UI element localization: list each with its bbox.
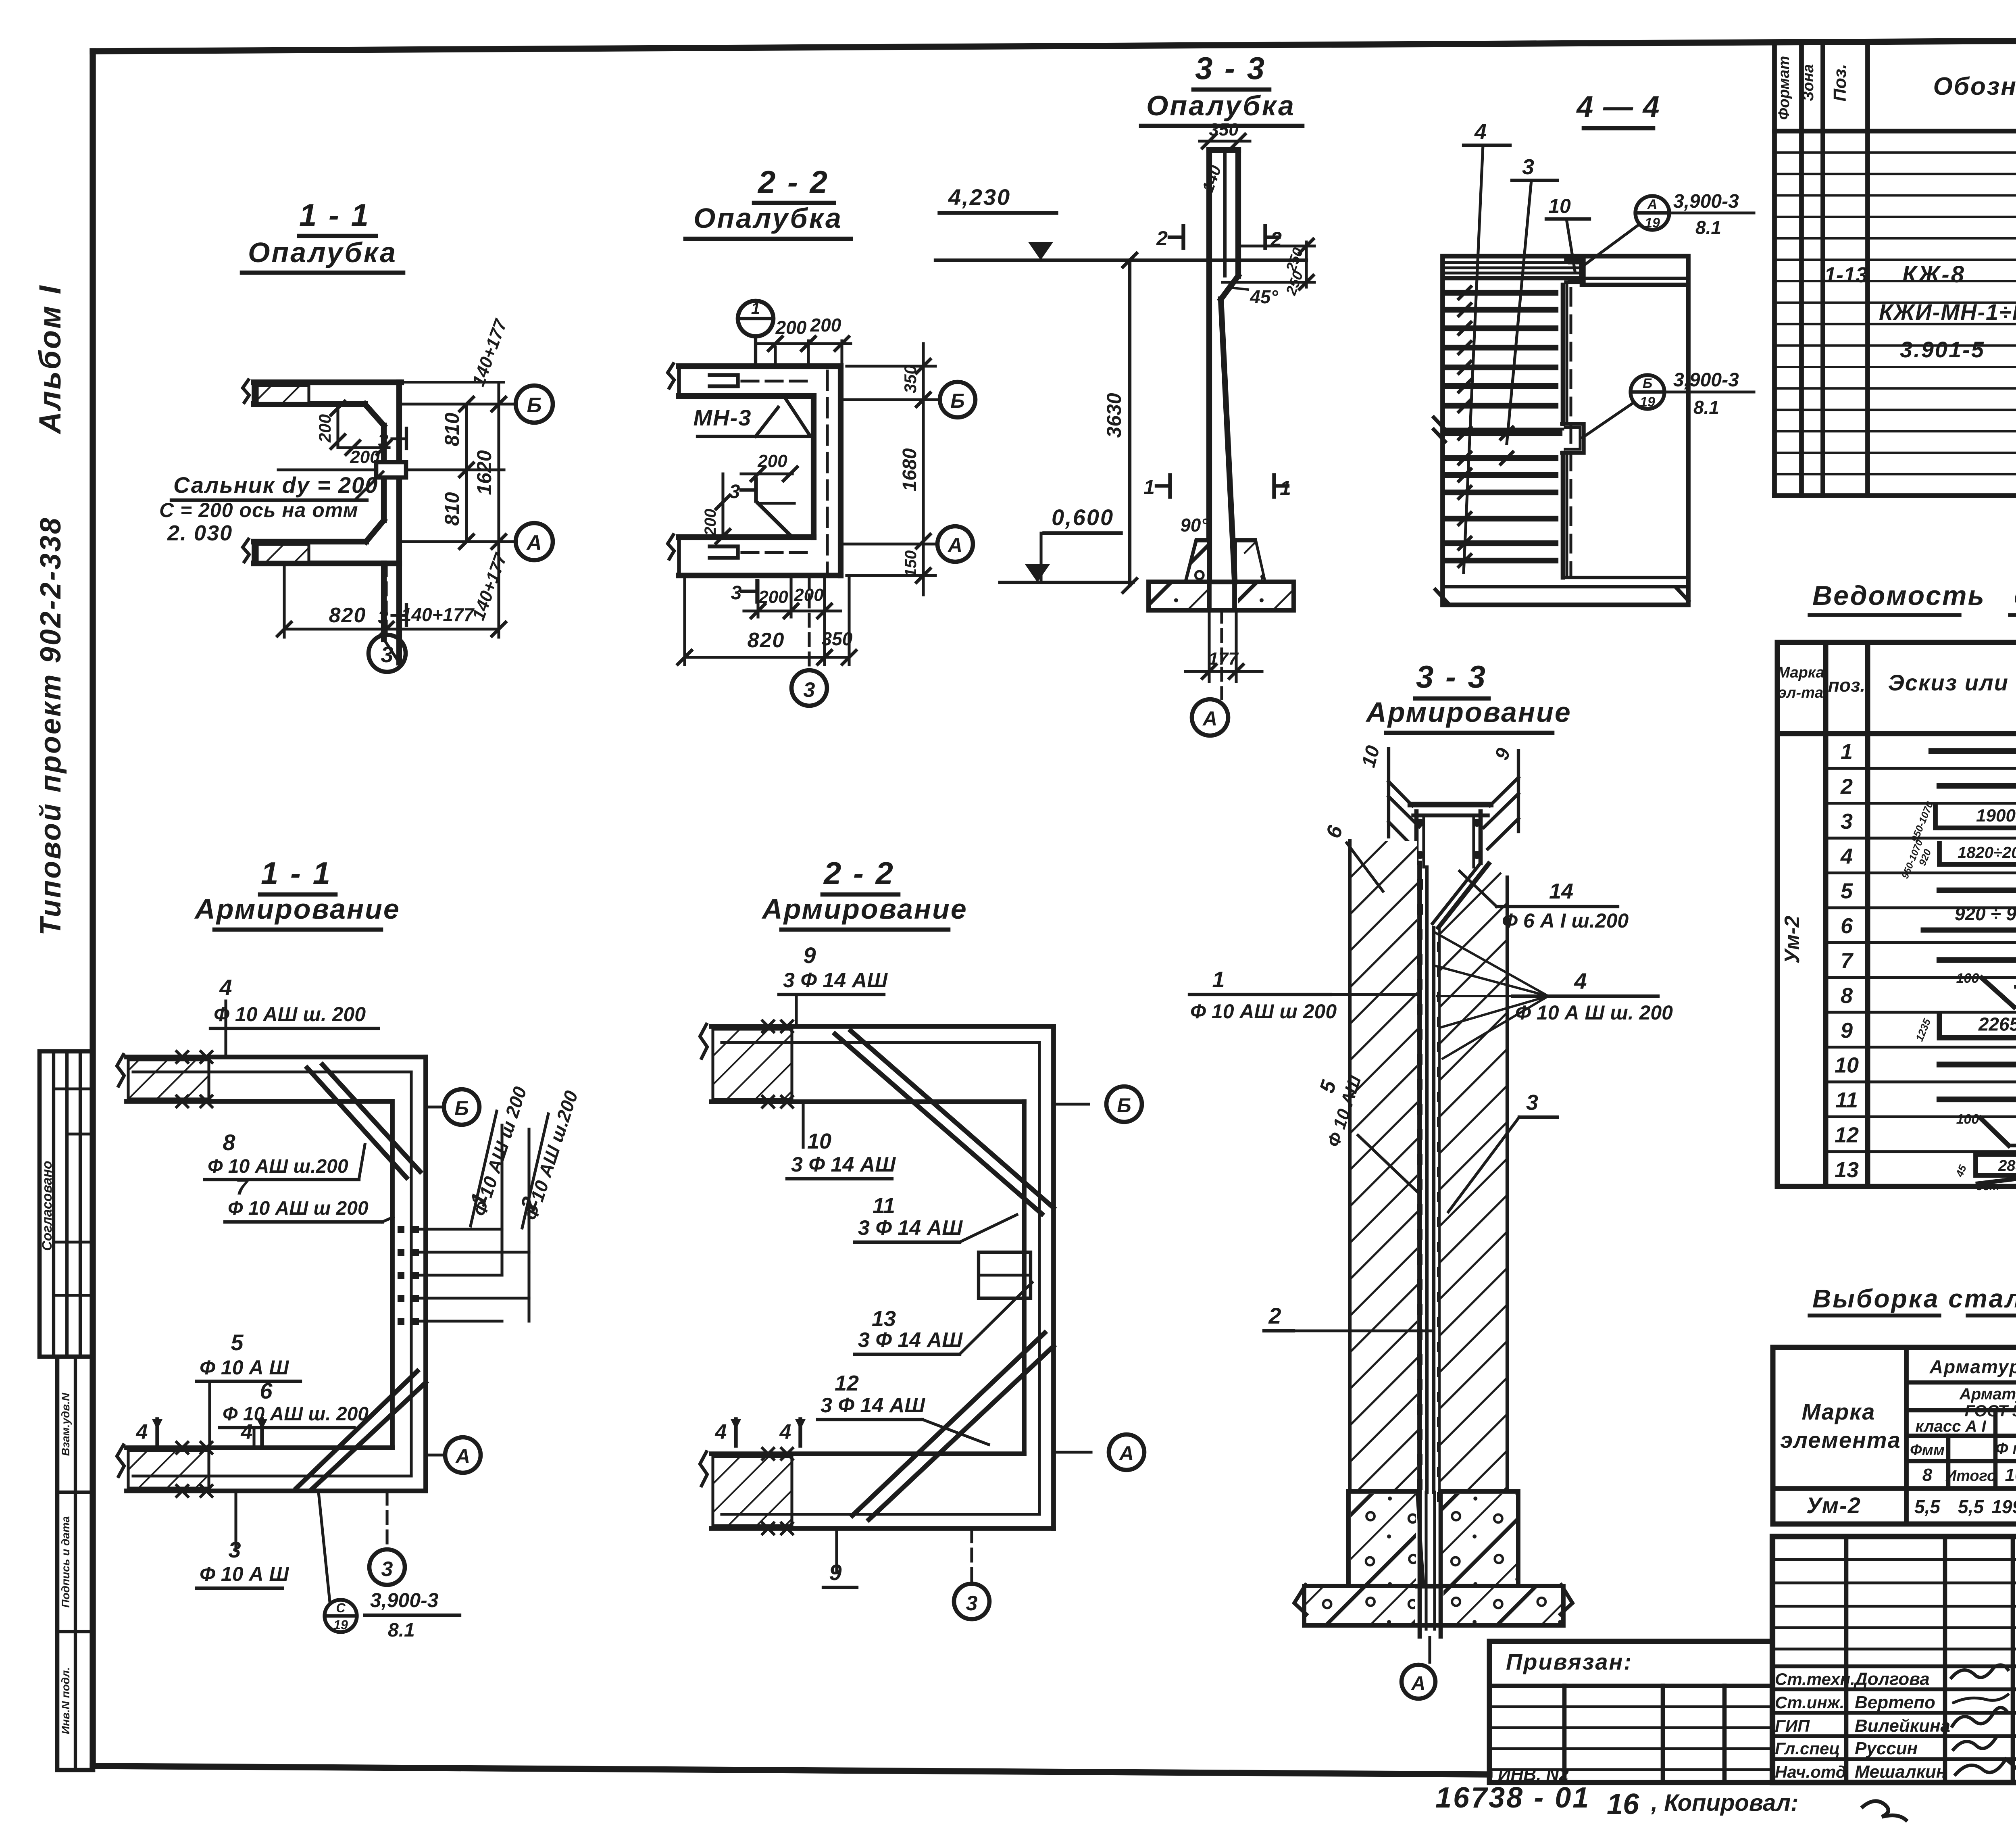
svg-text:класс А I: класс А I — [1915, 1418, 1986, 1435]
svg-text:1-13: 1-13 — [1824, 263, 1868, 287]
svg-text:Формат: Формат — [1776, 56, 1793, 120]
node A 3-3 — [1220, 610, 1223, 698]
svg-text:стержней на один элемент: стержней на один элемент — [2014, 580, 2016, 611]
svg-text:Привязан:: Привязан: — [1506, 1649, 1633, 1674]
svg-text:3630: 3630 — [1103, 393, 1125, 438]
svg-text:200: 200 — [315, 414, 334, 443]
svg-text:Гл.спец: Гл.спец — [1775, 1739, 1840, 1758]
svg-text:200: 200 — [758, 587, 788, 607]
svg-text:Обозначение: Обозначение — [1933, 73, 2016, 100]
svg-text:Фмм: Фмм — [1910, 1442, 1945, 1459]
svg-text:Руссин: Руссин — [1855, 1739, 1918, 1758]
view 4-4 drawing — [1443, 256, 1688, 605]
svg-text:10: 10 — [807, 1129, 831, 1153]
svg-text:Типовой проект 902-2-338: Типовой проект 902-2-338 — [35, 516, 67, 936]
svg-text:285: 285 — [1998, 1157, 2016, 1174]
svg-text:150: 150 — [902, 550, 920, 578]
node A 2-2 — [937, 526, 973, 562]
svg-text:Ум-2: Ум-2 — [1781, 916, 1804, 964]
foundation 3-3 armirovanie — [1348, 1491, 1417, 1586]
svg-text:10: 10 — [1835, 1053, 1859, 1078]
node 3 1-1a — [369, 1549, 405, 1585]
svg-text:16: 16 — [1607, 1788, 1639, 1820]
svg-text:4: 4 — [1474, 120, 1487, 144]
svg-text:Б: Б — [1117, 1094, 1131, 1117]
svg-text:90°: 90° — [1180, 515, 1208, 536]
title block — [1772, 1537, 2016, 1783]
svg-text:эл-та: эл-та — [1778, 684, 1823, 701]
svg-text:11: 11 — [873, 1194, 895, 1218]
svg-text:2 - 2: 2 - 2 — [757, 164, 829, 200]
svg-text:810: 810 — [441, 492, 463, 526]
svg-text:200: 200 — [757, 451, 787, 471]
callout circle A/19 top — [1635, 196, 1669, 230]
svg-text:7: 7 — [1841, 949, 1854, 973]
svg-text:5: 5 — [1841, 879, 1853, 903]
svg-text:100: 100 — [1956, 971, 1979, 986]
svg-text:1 - 1: 1 - 1 — [261, 855, 332, 891]
svg-text:Ум-2: Ум-2 — [1806, 1493, 1861, 1518]
svg-text:11: 11 — [1835, 1088, 1858, 1112]
svg-text:350: 350 — [901, 365, 920, 393]
svg-text:199,4: 199,4 — [1991, 1496, 2016, 1517]
svg-text:Марка: Марка — [1777, 664, 1824, 681]
svg-text:Альбом I: Альбом I — [33, 284, 67, 434]
svg-text:КЖИ-МН-1÷МН-9: КЖИ-МН-1÷МН-9 — [1879, 299, 2016, 325]
callout 3,900-3 8.1 — [325, 1600, 357, 1632]
svg-text:элемента: элемента — [1780, 1427, 1901, 1453]
svg-text:920 ÷ 950: 920 ÷ 950 — [1955, 903, 2016, 924]
node B — [516, 386, 553, 423]
svg-text:Б: Б — [950, 390, 964, 412]
svg-text:9: 9 — [1841, 1018, 1853, 1042]
svg-text:1: 1 — [1212, 967, 1225, 992]
svg-text:177: 177 — [1208, 649, 1239, 669]
svg-text:Армирование: Армирование — [1365, 696, 1572, 728]
svg-text:200: 200 — [350, 447, 380, 467]
view 1-1 opalubka drawing — [254, 379, 401, 385]
svg-text:2: 2 — [1840, 775, 1853, 799]
svg-text:А: А — [1118, 1442, 1134, 1465]
svg-text:Ф 10 АШ ш. 200: Ф 10 АШ ш. 200 — [214, 1003, 366, 1026]
node B 1-1a — [444, 1089, 479, 1125]
svg-text:3: 3 — [1841, 809, 1853, 834]
svg-text:Ф 10 АШ ш.200: Ф 10 АШ ш.200 — [208, 1156, 348, 1177]
svg-text:Долгова: Долгова — [1853, 1669, 1930, 1689]
svg-text:3 Ф 14 АШ: 3 Ф 14 АШ — [858, 1216, 963, 1240]
node 3 — [369, 635, 406, 672]
svg-text:3,900-3: 3,900-3 — [370, 1589, 439, 1612]
svg-text:4: 4 — [219, 975, 232, 1000]
svg-text:Зона: Зона — [1800, 64, 1817, 101]
view 2-2 armirovanie drawing — [711, 1024, 1054, 1029]
svg-text:Ф 10 А Ш ш. 200: Ф 10 А Ш ш. 200 — [1515, 1001, 1673, 1024]
svg-text:А: А — [1202, 707, 1217, 730]
svg-text:2 - 2: 2 - 2 — [823, 855, 895, 891]
svg-text:1680: 1680 — [899, 448, 921, 491]
svg-text:Б: Б — [1643, 376, 1652, 391]
svg-text:8: 8 — [223, 1130, 235, 1155]
view 1-1 armirovanie drawing — [127, 1055, 426, 1059]
svg-text:3 - 3: 3 - 3 — [1416, 659, 1487, 694]
svg-text:4: 4 — [1574, 968, 1587, 994]
embedded plate mid — [1562, 424, 1584, 453]
svg-text:4: 4 — [136, 1420, 148, 1444]
svg-text:14: 14 — [1549, 879, 1573, 903]
svg-text:4: 4 — [779, 1420, 791, 1444]
svg-text:1900: 1900 — [1976, 806, 2016, 826]
svg-text:3,900-3: 3,900-3 — [1673, 191, 1739, 212]
svg-text:3: 3 — [381, 642, 393, 667]
svg-text:8.1: 8.1 — [388, 1620, 415, 1641]
svg-text:МН-3: МН-3 — [694, 405, 752, 430]
svg-text:19: 19 — [1640, 394, 1655, 410]
svg-text:4: 4 — [715, 1420, 727, 1444]
svg-text:1620: 1620 — [473, 450, 496, 495]
svg-text:12: 12 — [1835, 1123, 1859, 1147]
svg-text:2265: 2265 — [1978, 1013, 2016, 1034]
vyborka stali table — [1773, 1345, 2016, 1350]
svg-text:6: 6 — [260, 1378, 273, 1403]
svg-text:Ф 10 АШ ш 200: Ф 10 АШ ш 200 — [1190, 1000, 1337, 1023]
view 3-3 opalubka column — [1200, 140, 1250, 142]
svg-text:6: 6 — [1841, 914, 1853, 938]
callout circle B/19 mid — [1631, 375, 1664, 409]
svg-text:3 Ф 14 АШ: 3 Ф 14 АШ — [783, 969, 888, 992]
svg-text:10: 10 — [2005, 1465, 2016, 1485]
margin stamp table: lower — [57, 1357, 93, 1770]
svg-text:Ф 10 АШ ш 200: Ф 10 АШ ш 200 — [228, 1198, 369, 1219]
svg-text:200: 200 — [775, 317, 807, 338]
svg-text:, Копировал:: , Копировал: — [1651, 1790, 1798, 1816]
node 3 2-2 — [791, 670, 827, 706]
svg-text:3,900-3: 3,900-3 — [1673, 369, 1739, 391]
svg-text:Выборка стали на один элеме: Выборка стали на один элемент, кг — [1812, 1284, 2016, 1313]
svg-text:Мешалкин: Мешалкин — [1855, 1762, 1947, 1782]
svg-text:3: 3 — [1526, 1090, 1538, 1115]
svg-text:1 - 1: 1 - 1 — [299, 197, 370, 233]
svg-text:Опалубка: Опалубка — [694, 202, 843, 234]
svg-text:5,5: 5,5 — [1958, 1496, 1984, 1517]
svg-text:1: 1 — [1143, 476, 1155, 498]
svg-text:Опалубка: Опалубка — [248, 237, 397, 268]
svg-text:А: А — [455, 1445, 470, 1468]
svg-text:А: А — [526, 531, 542, 555]
svg-text:810: 810 — [441, 413, 463, 446]
svg-text:3 Ф 14 АШ: 3 Ф 14 АШ — [858, 1328, 963, 1352]
column 3-3 outline — [1206, 150, 1212, 580]
svg-text:Инв.N подл.: Инв.N подл. — [59, 1667, 72, 1734]
svg-text:3: 3 — [966, 1592, 978, 1615]
svg-text:200: 200 — [793, 585, 824, 605]
svg-text:Ф мм: Ф мм — [1995, 1440, 2016, 1457]
svg-text:1820÷2000: 1820÷2000 — [1958, 844, 2016, 861]
svg-text:Вертепо: Вертепо — [1855, 1693, 1935, 1712]
svg-text:поз.: поз. — [1828, 675, 1865, 696]
svg-text:3 - 3: 3 - 3 — [1195, 50, 1266, 86]
svg-text:3: 3 — [729, 481, 740, 502]
svg-text:8.1: 8.1 — [1695, 217, 1721, 238]
svg-text:3.901-5: 3.901-5 — [1900, 337, 1985, 362]
svg-text:4,230: 4,230 — [948, 184, 1011, 210]
svg-text:Ф 10 А Ш: Ф 10 А Ш — [200, 1563, 289, 1585]
privyazan block — [1489, 1641, 1772, 1783]
svg-text:0,600: 0,600 — [1052, 505, 1114, 530]
svg-text:Ф 10 А Ш: Ф 10 А Ш — [200, 1356, 289, 1379]
foundation 3-3 — [1186, 540, 1209, 582]
svg-text:3: 3 — [731, 582, 742, 604]
svg-text:8.1: 8.1 — [1693, 397, 1719, 418]
svg-text:350: 350 — [1209, 120, 1239, 140]
svg-text:3: 3 — [804, 678, 815, 702]
svg-text:4: 4 — [1840, 844, 1853, 868]
svg-text:10: 10 — [1548, 195, 1571, 217]
sheet frame — [93, 38, 2016, 51]
embedded plate top — [1566, 260, 1584, 282]
node A 3-3a — [1428, 1637, 1431, 1662]
svg-text:Итого: Итого — [1945, 1468, 1996, 1484]
svg-text:8: 8 — [1841, 984, 1853, 1008]
svg-text:2: 2 — [1270, 228, 1282, 250]
svg-text:Марка: Марка — [1802, 1399, 1876, 1424]
svg-text:3 Ф 14 АШ: 3 Ф 14 АШ — [791, 1153, 896, 1176]
svg-text:Армирование: Армирование — [761, 893, 968, 925]
svg-text:Армирование: Армирование — [194, 893, 400, 925]
view 2-2 opalubka drawing — [679, 363, 841, 369]
node A 2-2a — [1109, 1434, 1144, 1470]
svg-text:1: 1 — [1841, 740, 1853, 764]
svg-text:12: 12 — [835, 1371, 859, 1395]
svg-text:А: А — [1411, 1673, 1426, 1694]
svg-text:3: 3 — [381, 1557, 393, 1581]
svg-text:Вилейкина: Вилейкина — [1855, 1716, 1950, 1736]
svg-text:200: 200 — [702, 509, 719, 536]
svg-text:5,5: 5,5 — [1914, 1496, 1941, 1517]
svg-text:Ф 6 А I ш.200: Ф 6 А I ш.200 — [1502, 909, 1629, 932]
svg-text:Подпись и дата: Подпись и дата — [59, 1516, 72, 1608]
svg-text:Арматурные изделия: Арматурные изделия — [1929, 1356, 2016, 1377]
svg-text:200: 200 — [810, 315, 841, 336]
svg-text:350: 350 — [822, 628, 853, 649]
wall hatching left band — [1350, 841, 1417, 1491]
svg-text:4 — 4: 4 — 4 — [1576, 90, 1660, 123]
svg-text:7: 7 — [235, 1174, 249, 1199]
svg-text:1: 1 — [1280, 477, 1291, 499]
svg-text:Поз.: Поз. — [1830, 64, 1850, 101]
svg-text:дет: дет — [1976, 1180, 1999, 1193]
wall hatching right band — [1441, 865, 1507, 1491]
svg-text:9: 9 — [803, 942, 816, 968]
svg-text:Взам.удв.N: Взам.удв.N — [59, 1393, 72, 1456]
svg-text:45°: 45° — [1250, 286, 1278, 307]
svg-text:19: 19 — [1645, 215, 1660, 231]
svg-text:140+177: 140+177 — [401, 604, 475, 625]
svg-text:1: 1 — [751, 300, 760, 317]
margin stamp table: Согласовано — [40, 1051, 93, 1357]
svg-text:13: 13 — [872, 1307, 896, 1331]
svg-text:КЖ-8: КЖ-8 — [1902, 261, 1966, 288]
node B 2-2a — [1106, 1086, 1142, 1122]
svg-text:2. 030: 2. 030 — [167, 521, 233, 545]
svg-text:Нач.отд: Нач.отд — [1775, 1762, 1846, 1781]
svg-text:820: 820 — [329, 604, 367, 627]
svg-text:Ст.техн.: Ст.техн. — [1775, 1670, 1855, 1689]
node A 1-1a — [445, 1437, 481, 1473]
svg-text:Эскиз или сечение: Эскиз или сечение — [1888, 670, 2016, 695]
specification table — [1772, 42, 1777, 496]
view 3-3 armirovanie column — [1410, 802, 1491, 807]
svg-text:2: 2 — [1156, 227, 1168, 250]
svg-text:Ст.инж.: Ст.инж. — [1775, 1693, 1844, 1712]
node B 2-2 — [940, 382, 975, 417]
svg-text:С: С — [336, 1601, 346, 1615]
svg-text:100: 100 — [1956, 1111, 1979, 1127]
node 3 2-2a — [954, 1584, 989, 1619]
svg-text:Ведомость: Ведомость — [1812, 580, 1985, 611]
svg-text:13: 13 — [1835, 1158, 1859, 1182]
svg-text:5: 5 — [231, 1330, 244, 1355]
svg-text:3: 3 — [378, 430, 388, 451]
svg-text:3 Ф 14 АШ: 3 Ф 14 АШ — [821, 1394, 925, 1417]
svg-text:А: А — [1647, 197, 1658, 212]
svg-text:16738 - 01: 16738 - 01 — [1435, 1782, 1590, 1814]
MN-3 embedded part — [738, 301, 773, 336]
svg-text:С = 200 ось на отм: С = 200 ось на отм — [159, 499, 358, 521]
svg-text:ГИП: ГИП — [1775, 1716, 1810, 1735]
svg-text:2: 2 — [1268, 1303, 1281, 1328]
svg-text:820: 820 — [748, 629, 785, 652]
svg-text:Согласовано: Согласовано — [40, 1161, 55, 1251]
svg-text:А: А — [947, 534, 962, 557]
svg-text:3: 3 — [1522, 155, 1534, 179]
svg-text:Б: Б — [454, 1097, 469, 1120]
svg-text:Б: Б — [527, 394, 542, 417]
svg-text:8: 8 — [1922, 1465, 1933, 1485]
svg-text:4: 4 — [241, 1420, 253, 1444]
svg-text:Арматурная сталь: Арматурная сталь — [1959, 1385, 2016, 1403]
svg-text:Опалубка: Опалубка — [1146, 90, 1295, 121]
vedomost table — [1775, 642, 1780, 1186]
svg-text:19: 19 — [333, 1618, 348, 1632]
svg-text:Сальник dy = 200: Сальник dy = 200 — [173, 472, 378, 498]
node A — [516, 523, 553, 560]
